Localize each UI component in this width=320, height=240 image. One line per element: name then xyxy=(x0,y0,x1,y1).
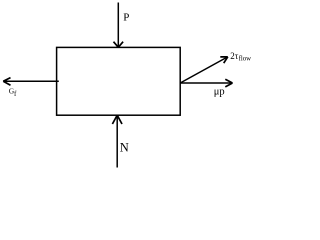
force 2-tau-flow arrow shaft xyxy=(180,58,226,84)
force Gf arrow shaft xyxy=(4,80,59,82)
svg-text:μp: μp xyxy=(214,87,225,98)
svg-text:2τ: 2τ xyxy=(230,51,239,61)
force 2-tau-flow arrowhead xyxy=(220,57,228,63)
block (free body) xyxy=(57,47,181,115)
force N arrow shaft xyxy=(116,116,118,168)
force mu-p arrow shaft xyxy=(180,82,231,84)
force Gf arrowhead xyxy=(3,78,10,86)
svg-text:N: N xyxy=(120,140,129,154)
force mu-p arrowhead xyxy=(225,79,232,87)
svg-text:P: P xyxy=(123,12,129,24)
force P arrow shaft xyxy=(117,3,119,47)
force P arrowhead xyxy=(114,42,124,48)
svg-text:flow: flow xyxy=(239,56,252,63)
force N arrowhead xyxy=(112,115,122,124)
